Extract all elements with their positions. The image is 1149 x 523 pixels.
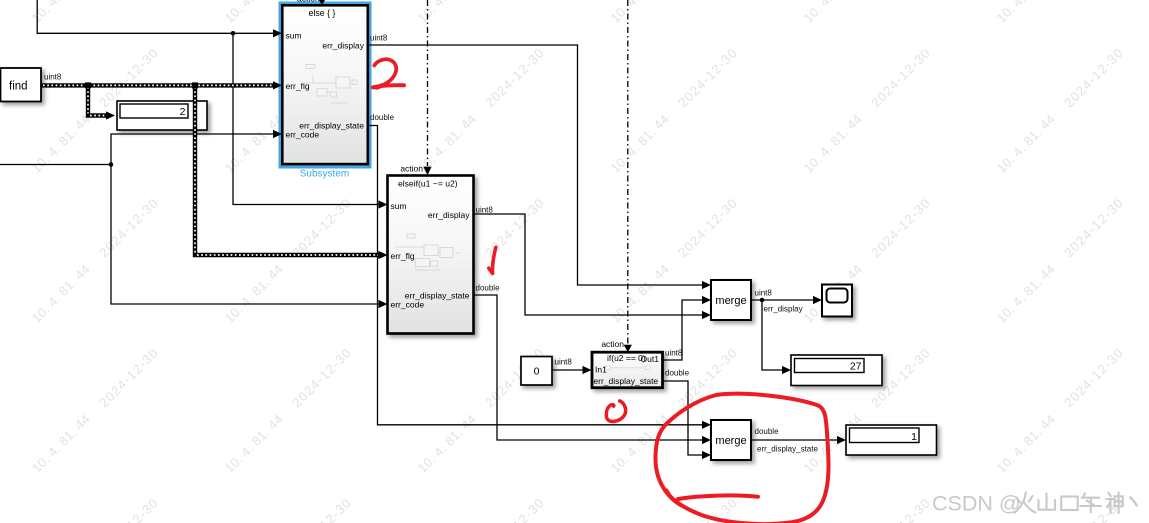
svg-text:10. 4. 81. 44: 10. 4. 81. 44 xyxy=(29,261,93,325)
subsystem2 preview doodle xyxy=(395,234,461,270)
svg-text:double: double xyxy=(665,369,690,378)
svg-text:err_flg: err_flg xyxy=(286,81,310,91)
svg-text:elseif(u1 ~= u2): elseif(u1 ~= u2) xyxy=(398,179,458,189)
svg-text:10. 4. 81. 44: 10. 4. 81. 44 xyxy=(29,411,93,475)
svg-text:double: double xyxy=(370,113,395,122)
wire err_display_state2 to merge2 xyxy=(474,295,704,440)
svg-text:uint8: uint8 xyxy=(555,358,573,367)
svg-text:uint8: uint8 xyxy=(476,205,494,214)
svg-text:10. 4. 81. 44: 10. 4. 81. 44 xyxy=(415,111,479,175)
dun mark xyxy=(1131,498,1137,506)
wire if Out1 to merge1 xyxy=(663,300,704,360)
svg-text:err_display: err_display xyxy=(428,210,470,220)
svg-text:10. 4. 81. 44: 10. 4. 81. 44 xyxy=(608,0,672,26)
svg-text:2024-12-30: 2024-12-30 xyxy=(1061,345,1126,410)
svg-text:Subsystem: Subsystem xyxy=(300,169,349,180)
if action block xyxy=(592,352,663,388)
subsystem elseif xyxy=(388,176,474,334)
wire sum1 net xyxy=(37,0,274,33)
wire merge1 out to scope xyxy=(751,299,814,301)
svg-text:action: action xyxy=(400,163,423,173)
svg-text:2024-12-30: 2024-12-30 xyxy=(868,495,933,523)
control dash-dot line to if block xyxy=(627,0,629,345)
red annotation 2 xyxy=(372,59,405,89)
huo xyxy=(1015,493,1036,513)
svg-text:err_display_state: err_display_state xyxy=(757,445,818,454)
junction node sum xyxy=(231,31,236,36)
svg-text:10. 4. 81. 44: 10. 4. 81. 44 xyxy=(994,261,1058,325)
svg-text:10. 4. 81. 44: 10. 4. 81. 44 xyxy=(801,111,865,175)
svg-text:10. 4. 81. 44: 10. 4. 81. 44 xyxy=(415,0,479,26)
svg-text:2024-12-30: 2024-12-30 xyxy=(482,495,547,523)
control dash-dot line to subsystem2 xyxy=(427,0,429,166)
kou xyxy=(1061,497,1078,511)
svg-text:10. 4. 81. 44: 10. 4. 81. 44 xyxy=(222,0,286,26)
red annotation 0 xyxy=(606,401,625,422)
merge block 1 xyxy=(711,280,751,320)
svg-text:2: 2 xyxy=(180,106,186,118)
svg-text:double: double xyxy=(476,283,501,292)
svg-text:10. 4. 81. 44: 10. 4. 81. 44 xyxy=(222,261,286,325)
svg-text:err_display: err_display xyxy=(322,41,364,51)
scope block xyxy=(822,285,852,317)
dotted branch to subsystem2 err_flg xyxy=(195,85,380,255)
svg-text:err_display: err_display xyxy=(764,305,803,314)
svg-text:double: double xyxy=(755,427,780,436)
svg-text:10. 4. 81. 44: 10. 4. 81. 44 xyxy=(29,0,93,26)
svg-text:Out1: Out1 xyxy=(641,354,660,364)
svg-text:10. 4. 81. 44: 10. 4. 81. 44 xyxy=(801,0,865,26)
signal type labels xyxy=(44,33,818,453)
shan xyxy=(1039,494,1056,510)
svg-text:2024-12-30: 2024-12-30 xyxy=(482,45,547,110)
svg-text:err_code: err_code xyxy=(286,130,320,140)
svg-text:err_display_state: err_display_state xyxy=(593,376,658,386)
svg-text:2024-12-30: 2024-12-30 xyxy=(675,195,740,260)
svg-text:2024-12-30: 2024-12-30 xyxy=(96,495,161,523)
svg-text:2024-12-30: 2024-12-30 xyxy=(675,45,740,110)
wire err_code to subsystem2 xyxy=(111,165,380,305)
svg-text:err_code: err_code xyxy=(391,299,425,309)
svg-text:10. 4. 81. 44: 10. 4. 81. 44 xyxy=(222,411,286,475)
red circle annotation xyxy=(655,394,828,523)
svg-text:2024-12-30: 2024-12-30 xyxy=(289,345,354,410)
subsystem1 preview doodle xyxy=(302,65,357,104)
action arrow subsystem2 xyxy=(423,167,431,176)
junction node find1 xyxy=(85,82,91,88)
svg-text:2024-12-30: 2024-12-30 xyxy=(1061,495,1126,523)
svg-text:27: 27 xyxy=(850,361,862,373)
svg-text:merge: merge xyxy=(715,295,746,307)
svg-text:2024-12-30: 2024-12-30 xyxy=(868,45,933,110)
wire if errds to merge2 xyxy=(663,381,704,455)
wire err_display1 to merge1 xyxy=(368,45,703,285)
svg-text:err_flg: err_flg xyxy=(391,251,415,261)
svg-text:10. 4. 81. 44: 10. 4. 81. 44 xyxy=(415,411,479,475)
svg-text:10. 4. 81. 44: 10. 4. 81. 44 xyxy=(29,111,93,175)
svg-text:2024-12-30: 2024-12-30 xyxy=(96,195,161,260)
svg-text:uint8: uint8 xyxy=(370,33,388,42)
che xyxy=(1080,494,1101,513)
wire err_display2 to merge1 xyxy=(474,214,704,315)
merge block 2 xyxy=(711,420,751,460)
svg-text:10. 4. 81. 44: 10. 4. 81. 44 xyxy=(608,261,672,325)
find block xyxy=(1,68,42,102)
svg-text:sum: sum xyxy=(391,201,407,211)
svg-text:10. 4. 81. 44: 10. 4. 81. 44 xyxy=(994,0,1058,26)
arrowheads xyxy=(273,29,846,459)
subsystem Subsystem (selected) xyxy=(279,2,372,169)
svg-text:10. 4. 81. 44: 10. 4. 81. 44 xyxy=(222,111,286,175)
svg-text:10. 4. 81. 44: 10. 4. 81. 44 xyxy=(994,111,1058,175)
display block 1 xyxy=(846,425,937,455)
wire merge2 out to display1 xyxy=(751,439,838,441)
svg-text:0: 0 xyxy=(534,366,540,378)
svg-text:uint8: uint8 xyxy=(755,288,773,297)
wire to subsystem2 sum xyxy=(233,33,380,204)
svg-text:2024-12-30: 2024-12-30 xyxy=(868,195,933,260)
junction node merge1 out xyxy=(760,298,765,303)
red annotation 1 xyxy=(489,247,496,273)
wire err_code net from left xyxy=(0,164,111,166)
svg-text:2024-12-30: 2024-12-30 xyxy=(289,495,354,523)
svg-text:uint8: uint8 xyxy=(44,73,62,82)
junction node find2 xyxy=(192,82,198,88)
action arrow if block xyxy=(624,345,632,352)
svg-text:find: find xyxy=(9,81,28,93)
shen xyxy=(1106,493,1113,513)
svg-text:2024-12-30: 2024-12-30 xyxy=(96,345,161,410)
svg-text:CSDN @: CSDN @ xyxy=(932,492,1021,516)
svg-text:else { }: else { } xyxy=(309,8,336,18)
wire err_display_state1 to merge2 xyxy=(368,126,703,425)
svg-text:merge: merge xyxy=(715,435,746,447)
constant 0 block xyxy=(521,357,552,386)
svg-text:1: 1 xyxy=(911,431,917,443)
wire merge1 branch to display27 xyxy=(762,300,783,370)
display block 27 xyxy=(791,355,882,386)
CSDN CJK glyphs xyxy=(1015,493,1137,514)
svg-text:10. 4. 81. 44: 10. 4. 81. 44 xyxy=(608,111,672,175)
wire const0 to if In1 xyxy=(552,369,584,371)
display block 2 xyxy=(117,101,207,130)
svg-text:10. 4. 81. 44: 10. 4. 81. 44 xyxy=(994,411,1058,475)
wire err_code to subsystem1 xyxy=(111,134,274,165)
dotted branch to display2 xyxy=(88,85,107,115)
svg-text:2024-12-30: 2024-12-30 xyxy=(1061,45,1126,110)
svg-text:uint8: uint8 xyxy=(665,349,683,358)
svg-text:action: action xyxy=(297,0,320,4)
svg-text:sum: sum xyxy=(286,31,302,41)
svg-text:2024-12-30: 2024-12-30 xyxy=(1061,195,1126,260)
dotted signal wire find to err_flg xyxy=(42,81,388,259)
junction node err_code xyxy=(109,162,114,167)
svg-text:action: action xyxy=(601,339,624,349)
